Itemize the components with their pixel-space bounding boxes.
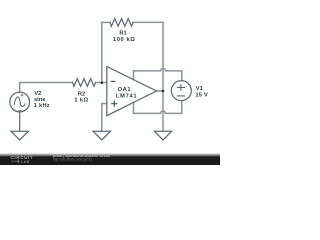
resistor R1 bbox=[110, 19, 133, 27]
wire V2 to R2 bbox=[20, 82, 73, 84]
svg-text:LM741: LM741 bbox=[116, 93, 137, 99]
voltage source V1 circle bbox=[171, 81, 191, 101]
V1 minus sign bbox=[177, 95, 184, 97]
svg-text:OA1: OA1 bbox=[118, 87, 131, 93]
wire V- rail with hop over output wire bbox=[134, 111, 182, 113]
wire non-inverting input to ground bbox=[102, 104, 107, 132]
svg-text:V1: V1 bbox=[196, 86, 203, 92]
footer logo LAB bbox=[11, 159, 19, 163]
voltage source V2 circle bbox=[10, 92, 30, 112]
V2 small plus bbox=[21, 94, 24, 97]
resistor R2 bbox=[73, 79, 96, 87]
svg-text:http://circuitlab.com/c/qr7wz: http://circuitlab.com/c/qr7wz bbox=[53, 158, 93, 162]
svg-text:1 kΩ: 1 kΩ bbox=[74, 98, 88, 104]
wire feedback right vertical bbox=[162, 22, 164, 91]
wire V1 top lead bbox=[181, 71, 183, 81]
wire feedback top right bbox=[133, 21, 163, 23]
V1 plus sign bbox=[177, 85, 184, 90]
svg-text:R1: R1 bbox=[119, 31, 126, 37]
svg-text:1 kHz: 1 kHz bbox=[34, 103, 50, 109]
wire V1 bottom lead bbox=[181, 101, 183, 114]
wire output node to ground bbox=[162, 91, 164, 131]
wire V+ rail with hop over feedback bbox=[134, 69, 182, 71]
junction output node bbox=[162, 90, 165, 93]
ground under output node bbox=[154, 131, 171, 140]
svg-text:LAB: LAB bbox=[21, 160, 30, 164]
wire feedback top left bbox=[102, 21, 110, 23]
op-amp OA1 triangle bbox=[107, 67, 157, 116]
footer bar bbox=[0, 153, 220, 157]
ground under V2 bbox=[11, 112, 28, 140]
V2 sine symbol bbox=[14, 97, 25, 106]
V2 small minus bbox=[18, 109, 21, 111]
wire R2 to node A and inverting pin bbox=[96, 82, 107, 84]
svg-text:100 kΩ: 100 kΩ bbox=[113, 37, 135, 43]
op-amp inverting pin minus sign bbox=[111, 80, 116, 82]
junction node A (inverting input) bbox=[101, 81, 104, 84]
op-amp non-inverting pin plus sign bbox=[111, 101, 117, 107]
wire op-amp V+ stub bbox=[133, 71, 135, 80]
ground under op-amp non-inverting input bbox=[93, 131, 110, 140]
svg-text:15 V: 15 V bbox=[195, 93, 208, 99]
wire V2 top lead bbox=[19, 83, 21, 93]
wire op-amp output bbox=[157, 90, 164, 92]
wire op-amp V- stub bbox=[133, 103, 135, 114]
wire feedback left vertical bbox=[101, 22, 103, 82]
